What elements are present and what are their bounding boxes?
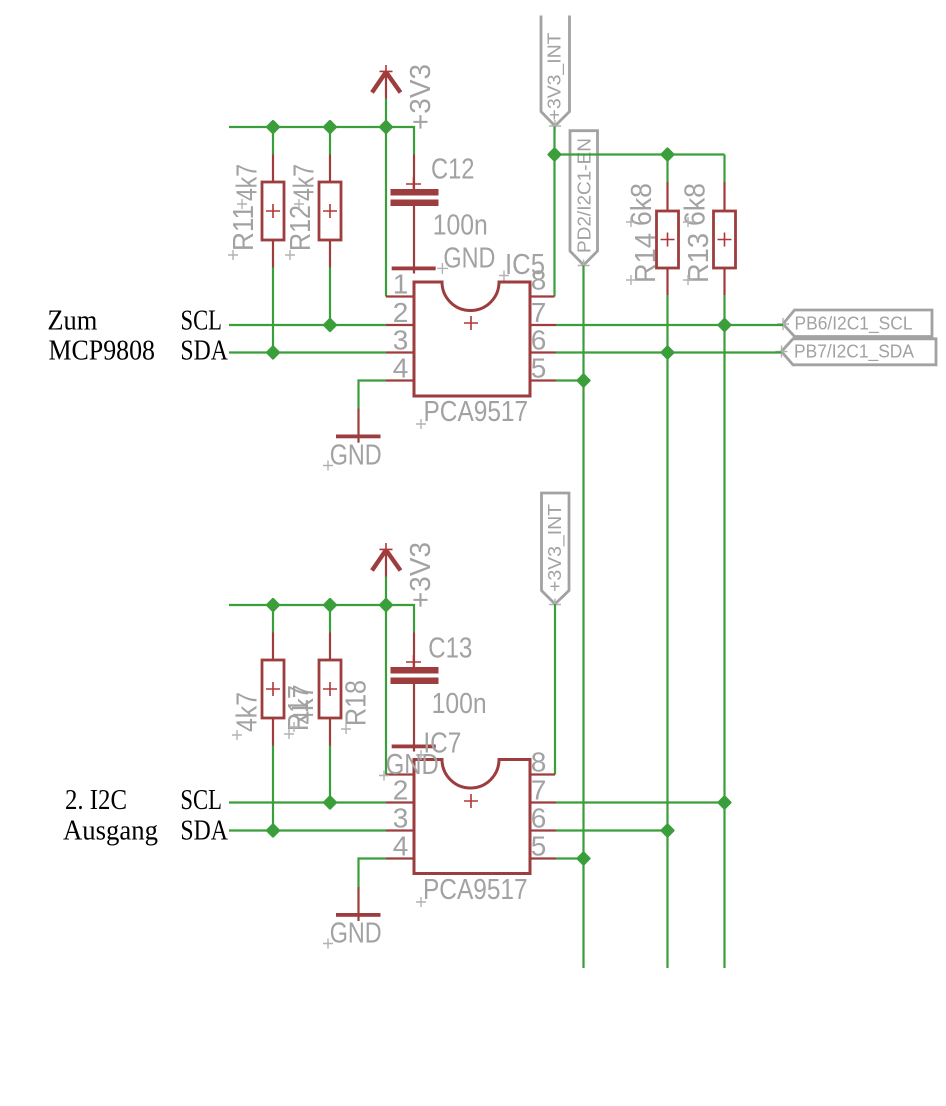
svg-text:6: 6 bbox=[531, 325, 547, 356]
svg-text:100n: 100n bbox=[432, 688, 487, 720]
junction pin5 PD2 bbox=[576, 373, 591, 388]
junction SCL R18 bbox=[322, 795, 337, 810]
svg-text:SDA: SDA bbox=[180, 816, 228, 847]
wire +3V3_INT drop to pin8 (bottom) bbox=[554, 604, 556, 775]
flag PB6/I2C1_SCL bbox=[777, 310, 932, 337]
resistor R18 bbox=[288, 633, 373, 746]
svg-text:3: 3 bbox=[393, 325, 409, 356]
svg-text:8: 8 bbox=[531, 747, 547, 778]
wire IC5 pin4 to gnd bbox=[359, 381, 387, 409]
power +3V3 (bottom) bbox=[372, 542, 437, 608]
svg-text:PCA9517: PCA9517 bbox=[424, 396, 529, 428]
wire top-right branch bbox=[555, 153, 725, 155]
svg-text:SCL: SCL bbox=[181, 305, 223, 336]
wire R18 top bbox=[329, 605, 331, 633]
gnd symbol C13 bbox=[392, 745, 436, 749]
flag PD2/I2C1-EN bbox=[570, 131, 598, 272]
svg-text:PB7/I2C1_SDA: PB7/I2C1_SDA bbox=[794, 342, 914, 363]
gnd symbol C12 bbox=[392, 243, 496, 275]
svg-text:4k7: 4k7 bbox=[288, 685, 320, 725]
pin 7 IC5 bbox=[530, 324, 556, 326]
pin 5 IC7 bbox=[530, 857, 556, 859]
pin 5 IC5 bbox=[530, 379, 556, 381]
junction rail +3V3 bbox=[378, 119, 393, 134]
flag +3V3_INT (top) bbox=[541, 16, 570, 133]
wire R17 top bbox=[272, 605, 274, 633]
flag PB7/I2C1_SDA bbox=[776, 339, 937, 365]
wire +3V3 stem top bbox=[385, 99, 387, 128]
junction SCL R13 bottom bbox=[717, 795, 732, 810]
wire R14 top bbox=[666, 155, 668, 183]
svg-text:100n: 100n bbox=[433, 210, 488, 242]
pin 1 IC5 bbox=[386, 295, 414, 297]
junction +3V3_INT branch bbox=[547, 147, 562, 162]
wire +3V3_INT drop to pin8 bbox=[553, 127, 555, 297]
svg-text:GND: GND bbox=[330, 918, 382, 950]
wire IC5 pin6 to PB7 bbox=[556, 351, 782, 353]
svg-text:2: 2 bbox=[393, 297, 409, 328]
pin 1 IC7 bbox=[386, 773, 414, 775]
svg-text:R11: R11 bbox=[228, 205, 260, 251]
pin 3 IC7 bbox=[386, 829, 414, 831]
svg-text:2: 2 bbox=[393, 775, 409, 806]
svg-text:GND: GND bbox=[330, 440, 382, 472]
pin 6 IC7 bbox=[530, 829, 556, 831]
wire R12 bottom to SCL bbox=[329, 268, 331, 326]
wire IC5 pin7 to PB6 bbox=[556, 324, 783, 326]
svg-text:6k8: 6k8 bbox=[680, 183, 712, 226]
svg-text:C13: C13 bbox=[428, 633, 472, 665]
junction SDA R11 bbox=[265, 345, 280, 360]
svg-text:PB6/I2C1_SCL: PB6/I2C1_SCL bbox=[795, 314, 913, 335]
svg-text:3: 3 bbox=[393, 803, 409, 834]
wire IC7 pin6 right bbox=[556, 829, 668, 831]
svg-text:R12: R12 bbox=[285, 205, 317, 251]
junction rail R18 bbox=[322, 597, 337, 612]
wire R11 bottom to SDA bbox=[272, 268, 274, 353]
svg-text:Zum: Zum bbox=[47, 305, 97, 336]
wire IC5 pin1 drop bbox=[385, 127, 387, 297]
power +3V3 (top) bbox=[372, 64, 437, 130]
wire SDA top bbox=[229, 351, 386, 353]
junction pin5 PD2 bottom bbox=[576, 851, 591, 866]
pin 8 IC7 bbox=[530, 773, 555, 775]
svg-text:MCP9808: MCP9808 bbox=[49, 335, 156, 366]
junction rail R11 bbox=[265, 119, 280, 134]
capacitor C13 bbox=[391, 633, 487, 752]
svg-text:R18: R18 bbox=[341, 680, 373, 726]
pin 4 IC7 bbox=[386, 857, 414, 859]
junction R14 branch bbox=[660, 147, 675, 162]
svg-text:Ausgang: Ausgang bbox=[63, 816, 158, 847]
junction SCL R13 bbox=[717, 317, 732, 332]
svg-text:+3V3_INT: +3V3_INT bbox=[545, 504, 566, 592]
junction SDA R14 bottom bbox=[660, 823, 675, 838]
svg-text:SCL: SCL bbox=[180, 785, 222, 816]
junction rail R12 bbox=[322, 119, 337, 134]
pin 6 IC5 bbox=[530, 351, 556, 353]
svg-text:+3V3_INT: +3V3_INT bbox=[545, 32, 566, 120]
wire top rail bbox=[229, 127, 414, 155]
gnd symbol IC5 pin4 bbox=[323, 409, 382, 472]
wire SCL top bbox=[229, 324, 386, 326]
svg-text:4k7: 4k7 bbox=[289, 164, 321, 201]
svg-text:4: 4 bbox=[393, 831, 409, 862]
wire IC5 pin5 stub bbox=[556, 379, 584, 381]
wire IC7 pin1 drop bbox=[385, 605, 387, 775]
pin 4 IC5 bbox=[386, 379, 414, 381]
svg-text:4: 4 bbox=[393, 353, 409, 384]
svg-text:C12: C12 bbox=[431, 154, 475, 186]
wire IC7 pin4 to gnd bbox=[359, 859, 387, 888]
wire IC7 pin5 stub bbox=[556, 857, 584, 859]
wire R12 top bbox=[329, 127, 331, 155]
ic IC7 PCA9517 bbox=[414, 728, 530, 908]
svg-text:8: 8 bbox=[531, 265, 547, 296]
resistor R11 bbox=[228, 155, 284, 268]
junction rail +3V3 bottom bbox=[378, 597, 393, 612]
wire PD2 vertical bbox=[582, 266, 584, 969]
resistor R14 bbox=[626, 182, 679, 295]
svg-text:7: 7 bbox=[531, 775, 547, 806]
junction SDA R14 bbox=[660, 345, 675, 360]
svg-text:1: 1 bbox=[393, 269, 409, 300]
wire SDA bottom bbox=[229, 829, 386, 831]
resistor R17 bbox=[232, 633, 316, 746]
wire R11 top bbox=[272, 127, 274, 155]
svg-text:R14: R14 bbox=[630, 233, 662, 283]
pin 2 IC7 bbox=[386, 801, 414, 803]
wire bottom rail bbox=[229, 605, 414, 633]
pin 8 IC5 bbox=[530, 295, 555, 297]
svg-text:6: 6 bbox=[531, 803, 547, 834]
pin 3 IC5 bbox=[386, 351, 414, 353]
gnd symbol IC7 pin4 bbox=[323, 887, 382, 950]
capacitor C12 bbox=[391, 154, 488, 274]
wire +3V3 stem bottom bbox=[385, 577, 387, 606]
junction SCL R12 bbox=[322, 317, 337, 332]
svg-text:PCA9517: PCA9517 bbox=[423, 874, 528, 906]
svg-text:4k7: 4k7 bbox=[232, 164, 264, 201]
svg-text:+3V3: +3V3 bbox=[405, 64, 437, 130]
svg-text:+3V3: +3V3 bbox=[405, 542, 437, 608]
wire R14 bottom long bbox=[666, 295, 668, 968]
svg-text:5: 5 bbox=[531, 353, 547, 384]
wire R13 bottom long bbox=[723, 295, 725, 968]
wire R13 top bbox=[723, 155, 725, 183]
wire IC7 pin7 right bbox=[556, 801, 725, 803]
svg-text:5: 5 bbox=[531, 831, 547, 862]
junction rail R17 bbox=[265, 597, 280, 612]
svg-text:SDA: SDA bbox=[180, 335, 228, 366]
junction SDA R17 bbox=[265, 823, 280, 838]
svg-text:4k7: 4k7 bbox=[232, 692, 264, 732]
svg-text:2. I2C: 2. I2C bbox=[65, 785, 127, 816]
wire R18 bottom to SCL bbox=[329, 746, 331, 803]
wire R17 bottom to SDA bbox=[272, 746, 274, 831]
svg-text:7: 7 bbox=[531, 297, 547, 328]
resistor R13 bbox=[680, 182, 736, 295]
wire SCL bottom bbox=[229, 801, 386, 803]
resistor R12 bbox=[285, 155, 341, 268]
pin 2 IC5 bbox=[386, 324, 414, 326]
svg-text:GND: GND bbox=[443, 243, 495, 275]
ic IC5 PCA9517 bbox=[414, 249, 545, 429]
pin 7 IC7 bbox=[530, 801, 556, 803]
flag +3V3_INT (bottom) bbox=[542, 493, 570, 611]
